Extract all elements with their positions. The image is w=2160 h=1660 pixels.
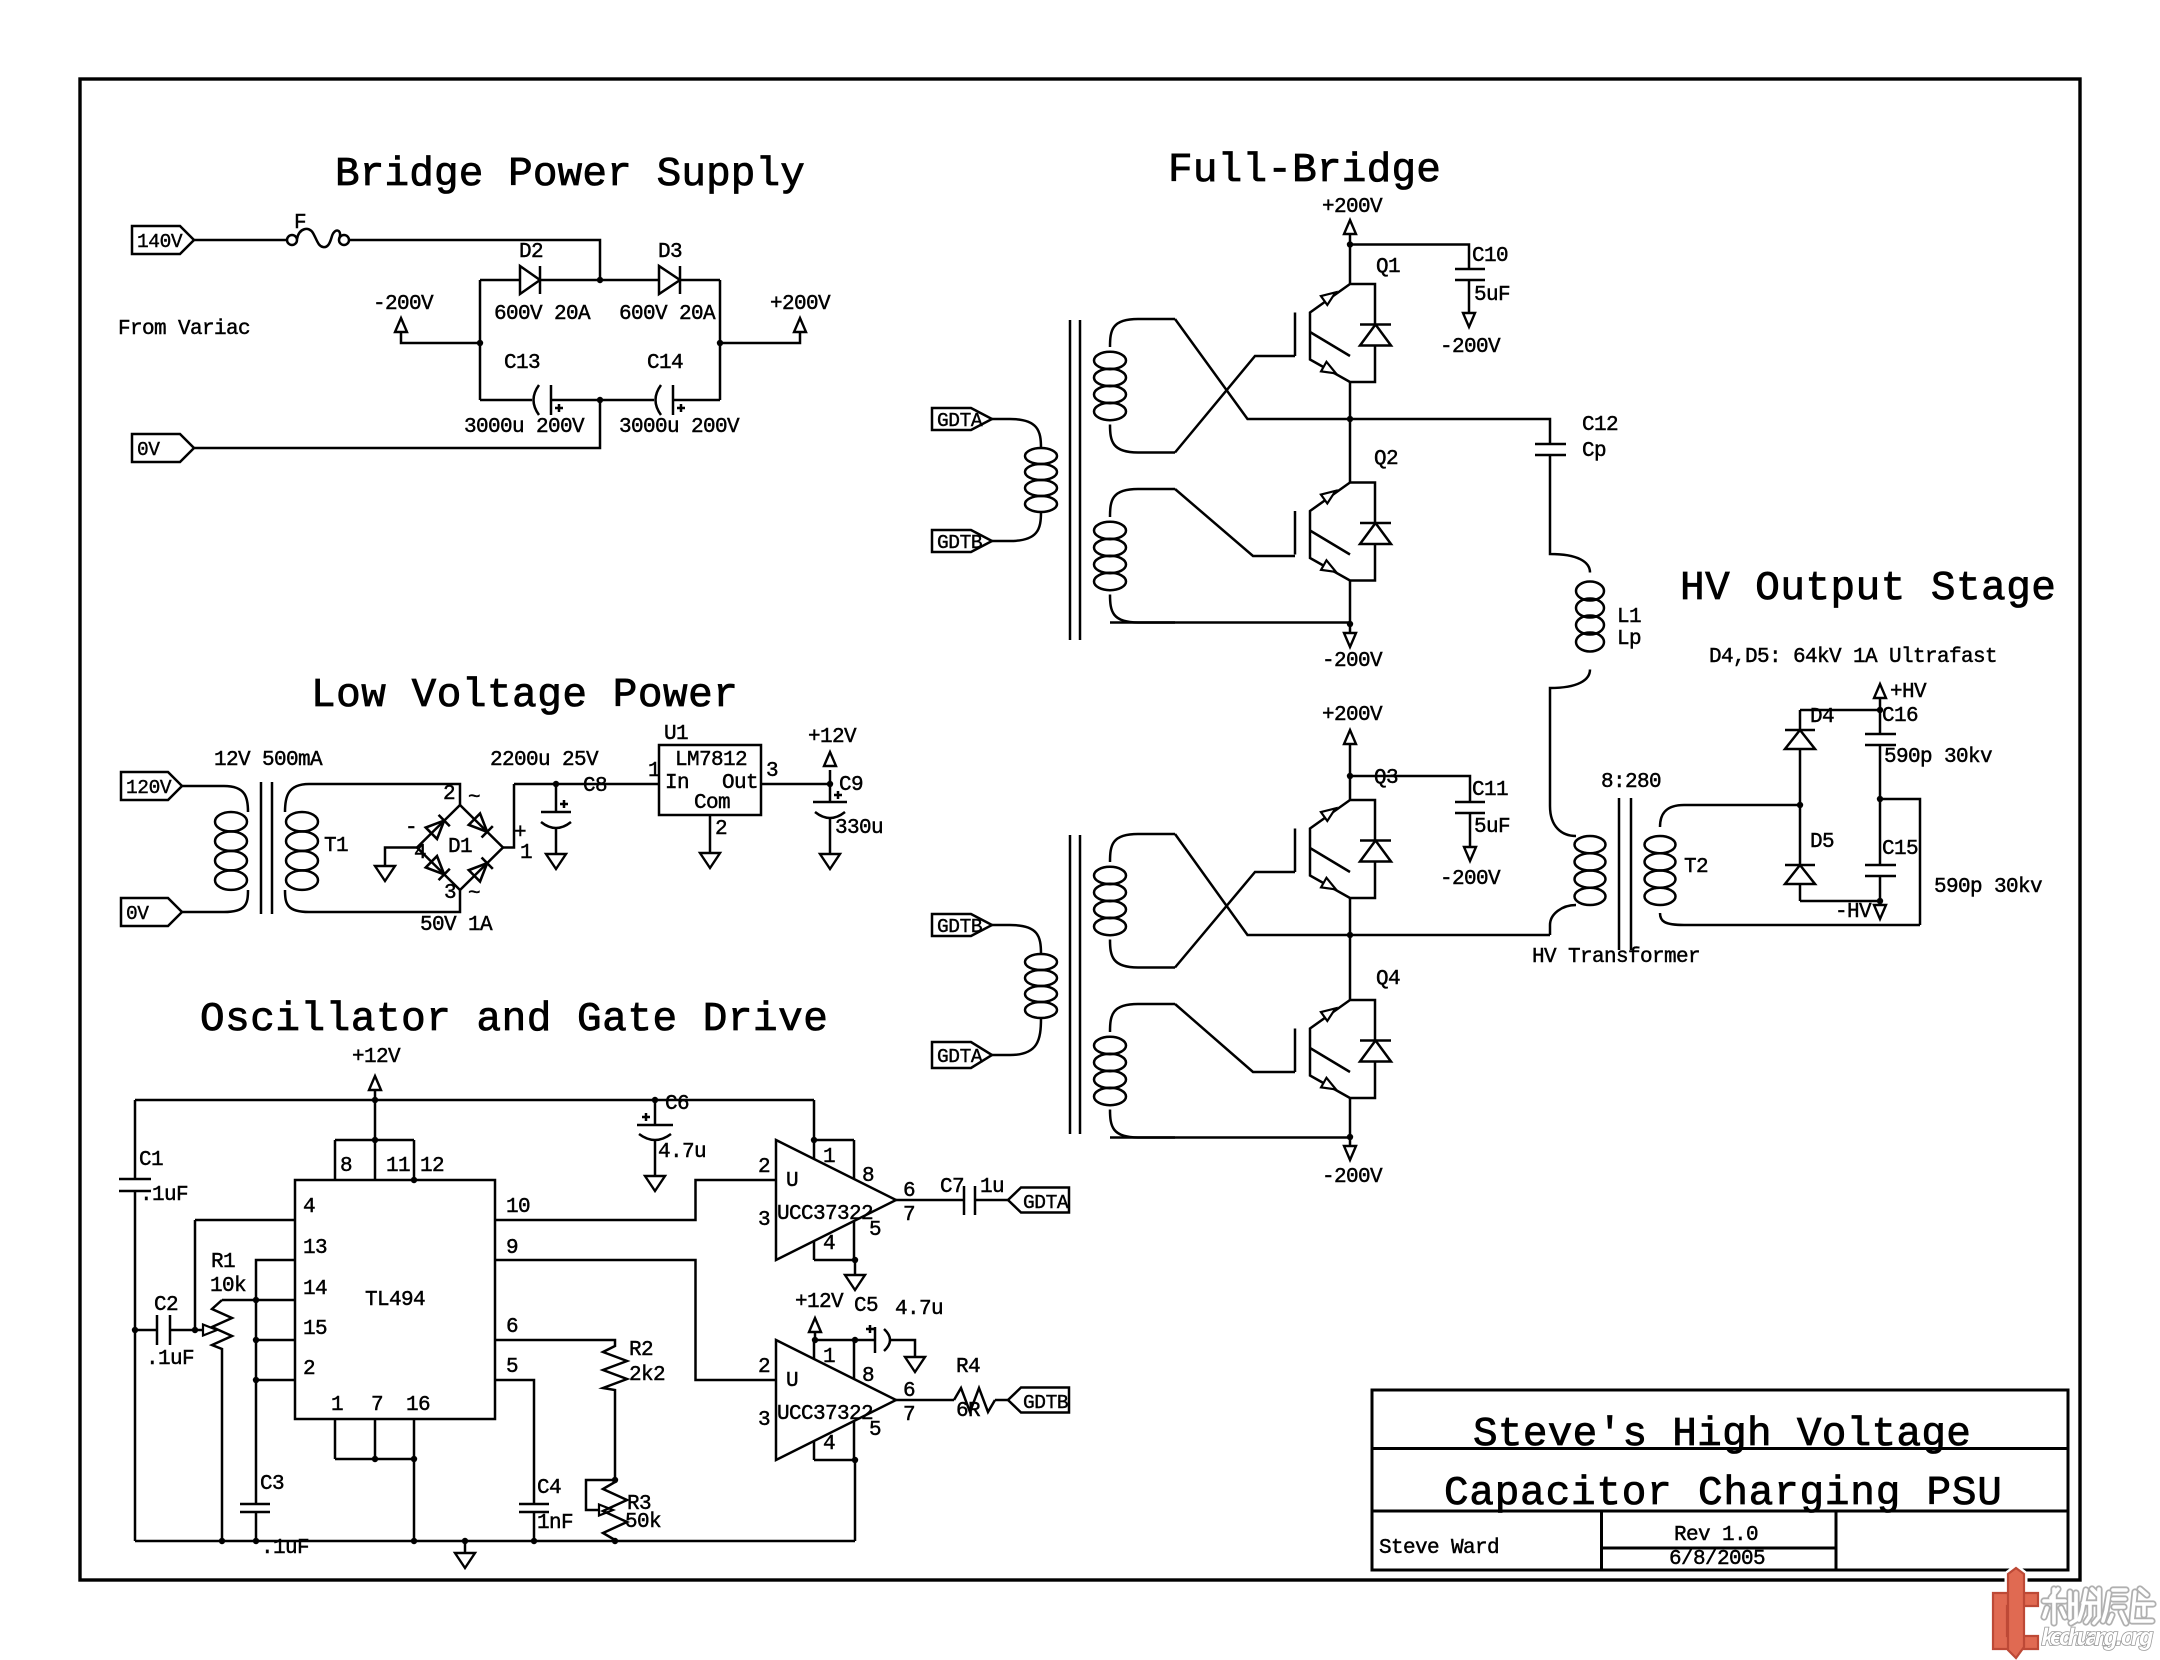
- transformer T2 core: [1619, 798, 1631, 950]
- node 140V tag: [132, 226, 194, 254]
- svg-text:5: 5: [506, 1356, 518, 1379]
- arrow +200V Q3: [1344, 730, 1356, 744]
- svg-text:1: 1: [648, 760, 660, 783]
- wire Q3 collector: [1349, 776, 1352, 800]
- node GDTB tag upper: [932, 530, 992, 552]
- node 0V tag lv: [121, 898, 182, 926]
- opamp U3 UCC37322: [776, 1340, 896, 1460]
- svg-text:C4: C4: [537, 1477, 561, 1500]
- svg-text:2: 2: [443, 783, 455, 806]
- wire Q1 collector: [1349, 245, 1352, 285]
- wire Q4 emitter: [1349, 1098, 1352, 1137]
- svg-text:HV Output Stage: HV Output Stage: [1680, 566, 2055, 612]
- svg-text:C12: C12: [1582, 414, 1618, 437]
- svg-text:Bridge Power Supply: Bridge Power Supply: [335, 152, 804, 198]
- wire gdt1A bottom to Q1 gate: [1175, 356, 1295, 453]
- transformer T1 secondary: [285, 784, 316, 812]
- wire gdt1B top to Q2 gate: [1175, 489, 1295, 556]
- svg-text:590p 30kv: 590p 30kv: [1884, 746, 1992, 769]
- svg-text:UCC37322: UCC37322: [777, 1403, 873, 1426]
- svg-text:Full-Bridge: Full-Bridge: [1168, 148, 1440, 194]
- svg-text:600V 20A: 600V 20A: [494, 303, 591, 326]
- svg-text:3000u 200V: 3000u 200V: [464, 416, 585, 439]
- capacitor C6: [654, 1100, 657, 1125]
- arrow +12V osc: [369, 1076, 381, 1090]
- wire T2 sec top to D4 D5: [1690, 804, 1800, 807]
- svg-text:1: 1: [823, 1146, 835, 1169]
- svg-text:+HV: +HV: [1890, 681, 1927, 704]
- svg-text:R2: R2: [629, 1339, 653, 1362]
- svg-text:4: 4: [823, 1233, 835, 1256]
- wire pin9 to driver2 pin2: [495, 1260, 776, 1380]
- svg-text:C15: C15: [1882, 838, 1918, 861]
- wire Q1 emitter to Q2: [1349, 382, 1352, 483]
- capacitor C3: [240, 1504, 270, 1512]
- wire Q2 emitter: [1349, 581, 1352, 625]
- capacitor C5: [855, 1339, 875, 1342]
- arrow -200V Q2: [1344, 633, 1356, 647]
- ground C8: [546, 854, 566, 869]
- svg-text:8: 8: [862, 1365, 874, 1388]
- svg-text:GDTB: GDTB: [1023, 1392, 1068, 1414]
- svg-text:D1: D1: [448, 836, 472, 859]
- svg-text:LM7812: LM7812: [675, 749, 747, 772]
- wire gdt1B bottom to Q2 emitter: [1110, 621, 1350, 624]
- wire +12V arrow driver2: [814, 1332, 817, 1340]
- resistor R4: [954, 1388, 995, 1412]
- capacitor C11: [1350, 776, 1470, 802]
- svg-text:GDTA: GDTA: [937, 410, 983, 432]
- svg-text:D4: D4: [1810, 706, 1834, 729]
- transformer GDT1 core: [1070, 320, 1080, 640]
- svg-text:9: 9: [506, 1237, 518, 1260]
- wire T1 sec top to bridge: [316, 784, 460, 805]
- ground C9: [820, 854, 840, 869]
- capacitor C10: [1350, 245, 1469, 270]
- wire -200V arrow: [401, 332, 480, 343]
- svg-text:7: 7: [371, 1394, 383, 1417]
- svg-text:Q2: Q2: [1374, 448, 1398, 471]
- svg-text:0V: 0V: [126, 903, 149, 925]
- svg-text:-: -: [405, 817, 417, 840]
- wire rail to driver1 vcc: [813, 1100, 816, 1140]
- svg-text:-200V: -200V: [1440, 336, 1501, 359]
- svg-text:U1: U1: [664, 723, 688, 746]
- svg-text:F: F: [294, 212, 306, 235]
- svg-text:+12V: +12V: [808, 726, 857, 749]
- svg-text:Com: Com: [694, 792, 730, 815]
- svg-text:Cp: Cp: [1582, 440, 1606, 463]
- fuse F: [287, 235, 297, 245]
- svg-text:5uF: 5uF: [1474, 816, 1510, 839]
- svg-text:Lp: Lp: [1617, 628, 1641, 651]
- svg-text:C2: C2: [154, 1294, 178, 1317]
- svg-text:C7: C7: [940, 1176, 964, 1199]
- svg-text:Oscillator and Gate Drive: Oscillator and Gate Drive: [200, 997, 827, 1043]
- node GDTB tag out: [1008, 1388, 1069, 1413]
- wire rail left column: [134, 1100, 137, 1179]
- svg-text:D4,D5: 64kV 1A Ultrafast: D4,D5: 64kV 1A Ultrafast: [1709, 646, 1997, 669]
- wire gnd rail osc: [135, 1540, 855, 1543]
- svg-text:3000u 200V: 3000u 200V: [619, 416, 740, 439]
- svg-text:330u: 330u: [835, 817, 883, 840]
- wire pin5 column: [495, 1380, 534, 1504]
- svg-text:C11: C11: [1472, 779, 1508, 802]
- ground U1 com: [700, 853, 720, 868]
- svg-text:4: 4: [823, 1433, 835, 1456]
- svg-text:5uF: 5uF: [1474, 284, 1510, 307]
- svg-text:6/8/2005: 6/8/2005: [1669, 1548, 1765, 1571]
- svg-text:1: 1: [331, 1394, 343, 1417]
- svg-text:C14: C14: [647, 352, 683, 375]
- svg-text:5: 5: [869, 1219, 881, 1242]
- opamp U2 UCC37322: [776, 1140, 896, 1260]
- wire D5 to -HV node: [1800, 900, 1880, 903]
- svg-text:C13: C13: [504, 352, 540, 375]
- svg-text:3: 3: [766, 760, 778, 783]
- svg-text:2: 2: [758, 1356, 770, 1379]
- wire T1 sec bottom to bridge: [316, 890, 460, 912]
- resistor R2: [495, 1340, 627, 1480]
- svg-text:10k: 10k: [210, 1275, 246, 1298]
- wire D4 to +HV node: [1800, 709, 1880, 712]
- wire T2 primary bottom to bridge mid: [1350, 934, 1550, 937]
- transformer T2 primary: [1550, 806, 1576, 836]
- capacitor C8: [555, 784, 558, 812]
- transistor Q2: [1295, 483, 1391, 581]
- svg-text:50k: 50k: [625, 1511, 661, 1534]
- svg-text:.1uF: .1uF: [146, 1348, 194, 1371]
- ground osc rail: [464, 1541, 467, 1552]
- rectifier D1 diamond: [417, 805, 503, 890]
- svg-text:+200V: +200V: [1322, 704, 1383, 727]
- watermark kechuang logo: [1993, 1568, 2038, 1658]
- capacitor C1: [119, 1179, 151, 1191]
- svg-text:1u: 1u: [980, 1176, 1004, 1199]
- svg-text:50V 1A: 50V 1A: [420, 914, 493, 937]
- wire 0V to T1: [182, 911, 214, 914]
- svg-text:600V 20A: 600V 20A: [619, 303, 716, 326]
- svg-text:2: 2: [715, 818, 727, 841]
- svg-text:8: 8: [340, 1155, 352, 1178]
- wire pin13 column: [256, 1260, 295, 1504]
- wire bridge box right: [719, 280, 722, 400]
- diode D5: [1799, 805, 1802, 865]
- svg-text:2200u 25V: 2200u 25V: [490, 749, 599, 772]
- svg-text:C16: C16: [1882, 705, 1918, 728]
- wire stem Q4 arrow: [1349, 1137, 1352, 1146]
- svg-text:7: 7: [903, 1204, 915, 1227]
- svg-text:-200V: -200V: [1322, 1166, 1383, 1189]
- svg-text:6: 6: [506, 1316, 518, 1339]
- node GDTA tag lower: [932, 1042, 992, 1068]
- svg-text:-200V: -200V: [373, 293, 434, 316]
- capacitor C4: [519, 1504, 549, 1512]
- svg-text:8:280: 8:280: [1601, 771, 1661, 794]
- svg-text:140V: 140V: [137, 231, 183, 253]
- svg-text:2: 2: [303, 1358, 315, 1381]
- svg-text:4: 4: [303, 1196, 315, 1219]
- svg-text:5: 5: [869, 1419, 881, 1442]
- svg-text:15: 15: [303, 1318, 327, 1341]
- svg-text:14: 14: [303, 1278, 327, 1301]
- capacitor C12: [1350, 419, 1550, 444]
- svg-text:4: 4: [414, 842, 426, 865]
- wire 120V to T1: [182, 785, 214, 788]
- arrow -200V Q4: [1344, 1146, 1356, 1160]
- ic TL494 box: [295, 1180, 495, 1419]
- svg-text:12V 500mA: 12V 500mA: [214, 749, 323, 772]
- svg-text:TL494: TL494: [365, 1289, 425, 1312]
- wire T2 sec bottom rail: [1690, 924, 1920, 927]
- arrow +HV: [1879, 698, 1882, 710]
- wire C16 C15 node to sec bottom: [1880, 799, 1920, 925]
- svg-text:Low Voltage Power: Low Voltage Power: [311, 673, 737, 719]
- transistor Q4: [1295, 1000, 1391, 1098]
- transformer GDT1 secondary B: [1094, 489, 1175, 623]
- svg-text:UCC37322: UCC37322: [777, 1203, 873, 1226]
- svg-text:D2: D2: [519, 241, 543, 264]
- svg-text:1: 1: [520, 842, 532, 865]
- wire +12V arrow lv: [829, 770, 832, 784]
- svg-text:T1: T1: [324, 835, 348, 858]
- svg-text:-HV: -HV: [1835, 901, 1872, 924]
- transformer GDT2 primary: [992, 925, 1041, 954]
- svg-text:Q3: Q3: [1374, 767, 1398, 790]
- svg-text:C3: C3: [260, 1473, 284, 1496]
- svg-text:1: 1: [823, 1346, 835, 1369]
- transformer GDT2 secondary B: [1094, 1004, 1175, 1138]
- transformer GDT1 primary: [992, 419, 1057, 541]
- capacitor C15: [1879, 799, 1882, 865]
- svg-text:C10: C10: [1472, 245, 1508, 268]
- wire U1 com: [709, 815, 712, 853]
- svg-text:11: 11: [386, 1155, 410, 1178]
- ground D1: [375, 866, 395, 881]
- svg-text:C1: C1: [139, 1149, 163, 1172]
- svg-text:C9: C9: [839, 774, 863, 797]
- svg-text:+200V: +200V: [770, 293, 831, 316]
- wire bridge box left: [479, 280, 482, 400]
- transformer GDT1 secondary A: [1094, 319, 1175, 453]
- svg-text:Q1: Q1: [1376, 256, 1400, 279]
- diode D3: [600, 279, 659, 282]
- svg-text:8: 8: [862, 1165, 874, 1188]
- wire gdt1A top to Q1 emitter: [1175, 319, 1350, 419]
- arrow +12V driver2: [809, 1318, 821, 1332]
- svg-text:C6: C6: [665, 1093, 689, 1116]
- svg-text:C8: C8: [583, 775, 607, 798]
- wire pin14: [222, 1299, 295, 1302]
- transformer GDT2 core: [1070, 835, 1080, 1134]
- wire gdt2A top to Q3 emitter: [1175, 834, 1350, 935]
- wire pin2: [256, 1379, 295, 1382]
- svg-text:7: 7: [903, 1404, 915, 1427]
- svg-text:590p 30kv: 590p 30kv: [1934, 876, 2042, 899]
- svg-text:R4: R4: [956, 1356, 980, 1379]
- svg-text:10: 10: [506, 1196, 530, 1219]
- svg-text:-200V: -200V: [1322, 650, 1383, 673]
- svg-text:R1: R1: [211, 1251, 235, 1274]
- svg-text:GDTB: GDTB: [937, 916, 982, 938]
- capacitor C2: [135, 1329, 157, 1332]
- wire Q3 emitter to Q4: [1349, 898, 1352, 1000]
- capacitor C16: [1879, 710, 1882, 734]
- svg-text:13: 13: [303, 1237, 327, 1260]
- svg-text:4.7u: 4.7u: [895, 1298, 943, 1321]
- wire 0V to bridge bottom: [194, 400, 600, 448]
- capacitor C14: [600, 399, 654, 402]
- node GDTA tag upper: [932, 408, 992, 430]
- inductor L1: [1550, 455, 1590, 573]
- transistor Q3: [1295, 800, 1391, 898]
- svg-text:C5: C5: [854, 1295, 878, 1318]
- svg-text:120V: 120V: [126, 777, 172, 799]
- svg-text:3: 3: [758, 1409, 770, 1432]
- capacitor C13: [480, 399, 532, 402]
- svg-text:HV Transformer: HV Transformer: [1532, 946, 1700, 969]
- svg-text:~: ~: [468, 883, 480, 906]
- svg-text:.1uF: .1uF: [140, 1184, 188, 1207]
- svg-text:12: 12: [420, 1155, 444, 1178]
- svg-text:6: 6: [903, 1380, 915, 1403]
- svg-text:L1: L1: [1617, 606, 1641, 629]
- svg-text:kechuang.org: kechuang.org: [2041, 1626, 2154, 1653]
- svg-text:6R: 6R: [956, 1400, 981, 1423]
- wire +12V rail osc: [135, 1099, 814, 1102]
- wire gdt2A bottom to Q3 gate: [1175, 872, 1295, 968]
- node GDTA tag out: [1008, 1188, 1069, 1213]
- potentiometer R3: [586, 1480, 615, 1510]
- wire pin10 to driver1 pin2: [495, 1180, 776, 1220]
- watermark chinese text: [2044, 1589, 2153, 1623]
- wire pins 1 7 16: [335, 1419, 414, 1541]
- capacitor C9: [829, 784, 832, 802]
- svg-text:U: U: [786, 1170, 798, 1193]
- svg-text:6: 6: [903, 1180, 915, 1203]
- arrow +12V lv: [824, 752, 836, 766]
- svg-text:1nF: 1nF: [537, 1512, 573, 1535]
- wire plus rail to U1: [514, 783, 659, 786]
- svg-text:D5: D5: [1810, 831, 1834, 854]
- wire pins 8 11 12: [335, 1100, 414, 1180]
- svg-text:GDTA: GDTA: [937, 1046, 983, 1068]
- node 120V tag: [121, 772, 182, 800]
- wire driver1 out: [896, 1199, 964, 1202]
- wire gdt2B bottom to Q4 emitter: [1110, 1136, 1350, 1139]
- svg-text:16: 16: [406, 1394, 430, 1417]
- wire +200V arrow Q3: [1349, 744, 1352, 776]
- svg-text:0V: 0V: [137, 439, 160, 461]
- svg-text:Q4: Q4: [1376, 968, 1400, 991]
- diode D2: [480, 279, 520, 282]
- transformer T2 secondary: [1660, 805, 1690, 827]
- transistor Q1: [1295, 284, 1391, 382]
- transformer T1 primary: [214, 786, 248, 812]
- wire pin15: [256, 1339, 295, 1342]
- wire stem Q2 arrow: [1349, 624, 1352, 633]
- svg-text:3: 3: [758, 1209, 770, 1232]
- wire D1 minus to ground: [385, 848, 417, 867]
- svg-text:2k2: 2k2: [629, 1364, 665, 1387]
- svg-text:In: In: [665, 772, 689, 795]
- wire +200V arrow: [720, 332, 800, 343]
- regulator U1 box: [659, 745, 761, 815]
- wire pin4 column: [195, 1220, 295, 1330]
- arrow +200V Q1: [1344, 220, 1356, 234]
- svg-text:From Variac: From Variac: [118, 318, 250, 341]
- node 0V tag: [132, 434, 194, 462]
- wire gdt2B top to Q4 gate: [1175, 1004, 1295, 1072]
- svg-text:.1uF: .1uF: [261, 1537, 309, 1560]
- wire U1 out: [761, 783, 830, 786]
- wire 140V to fuse: [194, 239, 287, 242]
- svg-text:T2: T2: [1684, 856, 1708, 879]
- wire driver2 out: [896, 1399, 954, 1402]
- svg-text:+200V: +200V: [1322, 196, 1383, 219]
- svg-text:U: U: [786, 1370, 798, 1393]
- wire +200V arrow Q1: [1349, 234, 1352, 245]
- svg-text:+12V: +12V: [352, 1046, 401, 1069]
- wire D1 plus up: [503, 784, 514, 848]
- potentiometer R1: [195, 1329, 202, 1332]
- arrow -200V bridge psu: [395, 318, 407, 332]
- svg-text:-200V: -200V: [1440, 868, 1501, 891]
- svg-text:D3: D3: [658, 241, 682, 264]
- arrow -HV: [1879, 901, 1882, 905]
- wire fuse to bridge top: [349, 240, 600, 280]
- svg-text:+12V: +12V: [795, 1291, 844, 1314]
- svg-text:2: 2: [758, 1156, 770, 1179]
- svg-text:4.7u: 4.7u: [658, 1141, 706, 1164]
- svg-text:Steve Ward: Steve Ward: [1379, 1537, 1499, 1560]
- arrow +200V bridge psu: [794, 318, 806, 332]
- title block: [1372, 1390, 2068, 1570]
- svg-text:Capacitor Charging PSU: Capacitor Charging PSU: [1444, 1471, 2001, 1517]
- diode D4: [1799, 749, 1802, 805]
- transformer T1 core: [261, 782, 272, 914]
- svg-text:GDTB: GDTB: [937, 532, 982, 554]
- svg-text:GDTA: GDTA: [1023, 1192, 1069, 1214]
- capacitor C7: [964, 1186, 975, 1215]
- junction dots: [597, 277, 603, 283]
- svg-text:~: ~: [468, 787, 480, 810]
- svg-text:3: 3: [444, 882, 456, 905]
- transformer GDT2 secondary A: [1094, 834, 1175, 968]
- node GDTB tag lower: [932, 914, 992, 936]
- svg-text:Rev 1.0: Rev 1.0: [1674, 1524, 1758, 1547]
